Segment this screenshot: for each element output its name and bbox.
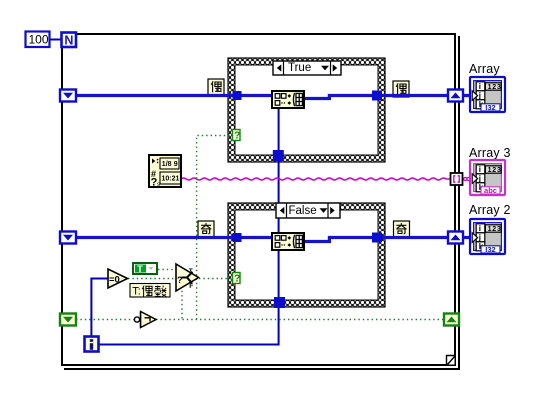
svg-text:i: i [479,165,481,174]
svg-text:I32: I32 [485,103,495,112]
svg-text:?: ? [234,274,240,285]
svg-text:9: 9 [174,161,178,168]
svg-text:i: i [479,224,481,233]
svg-text:i: i [479,82,481,91]
svg-text:False: False [289,205,317,217]
svg-text:10:21: 10:21 [162,176,180,183]
svg-text:F: F [189,283,193,290]
svg-text:1/8: 1/8 [162,161,172,168]
svg-text:123: 123 [488,226,502,233]
svg-text:I32: I32 [485,245,495,254]
svg-text:T: T [137,264,143,274]
svg-text:T: T [189,268,193,275]
svg-text:N: N [64,33,73,47]
svg-text:123: 123 [488,167,502,174]
svg-text:100: 100 [29,33,49,47]
svg-text:=0: =0 [109,274,120,285]
svg-text:123: 123 [488,84,502,91]
svg-text:Array: Array [469,62,500,76]
svg-text:abc: abc [484,186,497,195]
svg-text:Array 3: Array 3 [469,146,511,160]
svg-text:?: ? [234,131,240,142]
svg-text:T:: T: [132,285,141,297]
svg-text:Array 2: Array 2 [469,203,511,217]
svg-text:True: True [288,62,311,74]
